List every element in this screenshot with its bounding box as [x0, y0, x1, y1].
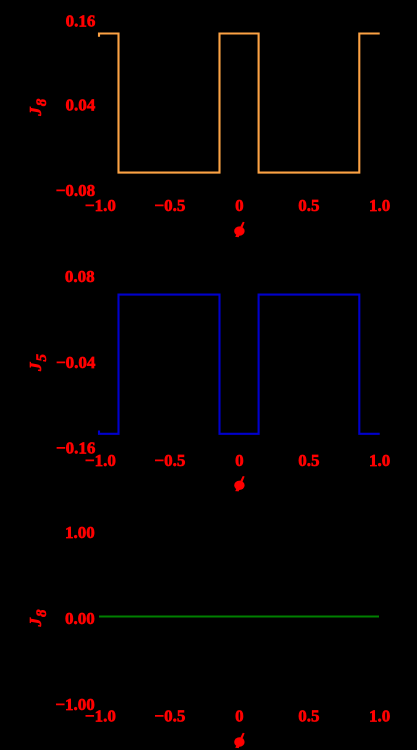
svg-text:−1.0: −1.0 — [85, 707, 116, 726]
panel 3 x-axis title phi — [234, 733, 244, 748]
svg-text:1.00: 1.00 — [65, 523, 95, 542]
panel 1 y-axis tick label -0.08 — [56, 181, 95, 200]
svg-text:−1.0: −1.0 — [85, 451, 116, 470]
svg-text:0: 0 — [235, 707, 244, 726]
panel 1 x-axis tick labels — [85, 196, 390, 215]
svg-text:1.0: 1.0 — [369, 707, 390, 726]
panel 2 y-axis tick label -0.16 — [56, 438, 95, 457]
svg-text:−1.0: −1.0 — [85, 196, 116, 215]
panel 3 y-axis title J8 (rotated) — [26, 609, 50, 628]
svg-text:0.16: 0.16 — [66, 11, 96, 30]
panel 3: green flat line at zero — [99, 616, 379, 618]
panel 1 y-axis tick label 0.16 — [66, 11, 96, 30]
svg-text:−0.5: −0.5 — [154, 451, 185, 470]
svg-text:0.00: 0.00 — [65, 609, 95, 628]
svg-text:0.5: 0.5 — [298, 451, 319, 470]
svg-text:−0.04: −0.04 — [56, 353, 96, 372]
panel 2 y-axis tick label -0.04 — [56, 353, 96, 372]
svg-text:0.04: 0.04 — [65, 96, 95, 115]
panel 2: blue square-wave curve J5(phi) — [99, 295, 380, 434]
panel 1 x-axis title phi — [234, 222, 244, 237]
svg-text:−0.5: −0.5 — [154, 196, 185, 215]
panel 2 x-axis tick labels — [85, 451, 390, 470]
panel 1: orange square-wave curve J8(phi) — [99, 34, 380, 173]
panel 2 y-axis tick label 0.08 — [65, 267, 95, 286]
svg-text:−0.5: −0.5 — [154, 707, 185, 726]
svg-text:0.5: 0.5 — [298, 707, 319, 726]
svg-text:0.5: 0.5 — [298, 196, 319, 215]
panel 1 y-axis title J8 (rotated) — [26, 98, 50, 117]
panel 3 y-axis tick label 0.00 — [65, 609, 95, 628]
svg-text:0.08: 0.08 — [65, 267, 95, 286]
svg-text:0: 0 — [235, 196, 244, 215]
panel 3 x-axis tick labels — [85, 707, 390, 726]
panel 2 y-axis title J5 (rotated) — [26, 354, 50, 373]
svg-text:1.0: 1.0 — [369, 196, 390, 215]
panel 3 y-axis tick label -1.00 — [55, 695, 94, 714]
svg-text:0: 0 — [235, 451, 244, 470]
panel 3 y-axis tick label 1.00 — [65, 523, 95, 542]
panel 1 y-axis tick label 0.04 — [65, 96, 95, 115]
svg-text:1.0: 1.0 — [369, 451, 390, 470]
panel 2 x-axis title phi — [234, 476, 244, 491]
